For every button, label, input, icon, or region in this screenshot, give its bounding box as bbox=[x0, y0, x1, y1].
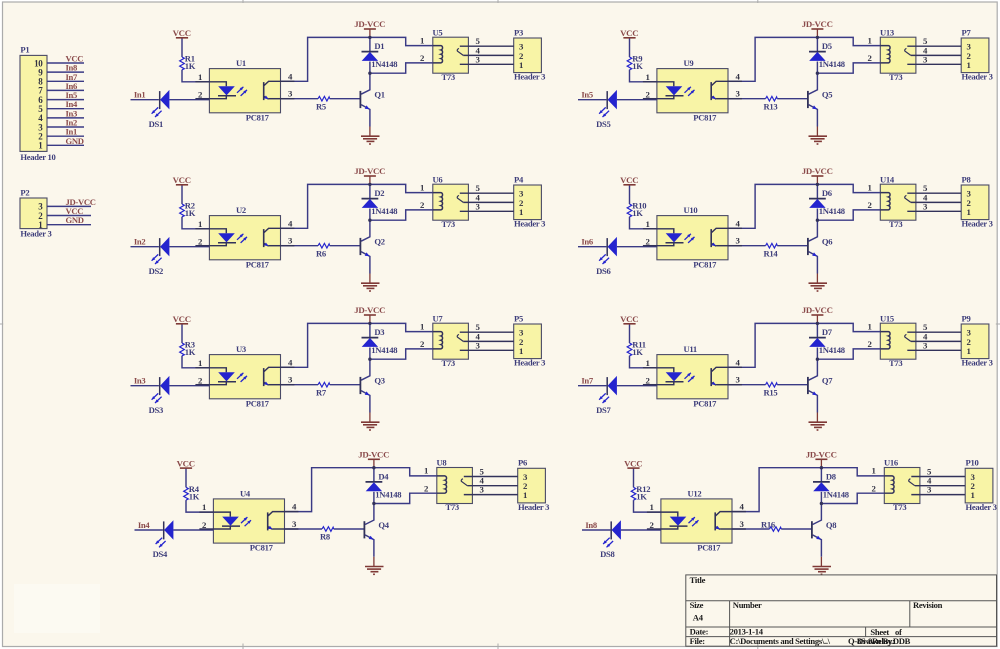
svg-text:R9: R9 bbox=[632, 54, 642, 64]
svg-text:D6: D6 bbox=[822, 188, 833, 198]
svg-text:P7: P7 bbox=[962, 27, 972, 37]
svg-text:Q7: Q7 bbox=[822, 376, 833, 386]
svg-text:U9: U9 bbox=[684, 58, 694, 68]
svg-text:P1: P1 bbox=[20, 45, 29, 55]
svg-text:Q3: Q3 bbox=[374, 376, 384, 386]
svg-text:R8: R8 bbox=[320, 532, 331, 542]
svg-text:In4: In4 bbox=[138, 520, 151, 530]
svg-text:U6: U6 bbox=[433, 174, 444, 184]
svg-text:U2: U2 bbox=[236, 205, 246, 215]
svg-text:GND: GND bbox=[66, 136, 84, 146]
svg-text:Size: Size bbox=[690, 600, 704, 610]
svg-text:P5: P5 bbox=[514, 313, 523, 323]
svg-text:Q1: Q1 bbox=[374, 90, 384, 100]
svg-text:R13: R13 bbox=[764, 101, 778, 111]
svg-text:U7: U7 bbox=[433, 313, 444, 323]
svg-text:Q2: Q2 bbox=[374, 237, 384, 247]
svg-text:P9: P9 bbox=[962, 313, 971, 323]
svg-text:In6: In6 bbox=[581, 237, 594, 247]
svg-text:P2: P2 bbox=[20, 188, 29, 198]
svg-text:In5: In5 bbox=[581, 90, 593, 100]
svg-text:In3: In3 bbox=[134, 376, 146, 386]
svg-text:R1: R1 bbox=[185, 54, 195, 64]
svg-text:R2: R2 bbox=[185, 201, 195, 211]
svg-text:U3: U3 bbox=[236, 344, 246, 354]
svg-text:R10: R10 bbox=[632, 201, 646, 211]
svg-text:P4: P4 bbox=[514, 174, 524, 184]
svg-text:Number: Number bbox=[733, 600, 762, 610]
svg-text:R4: R4 bbox=[189, 484, 200, 494]
svg-text:In2: In2 bbox=[134, 237, 146, 247]
svg-text:Header 3: Header 3 bbox=[20, 229, 51, 239]
svg-text:D2: D2 bbox=[374, 188, 384, 198]
svg-text:DS6: DS6 bbox=[596, 266, 611, 276]
svg-text:In1: In1 bbox=[134, 90, 146, 100]
svg-text:A4: A4 bbox=[693, 613, 704, 623]
svg-text:GND: GND bbox=[66, 215, 84, 225]
svg-text:R15: R15 bbox=[764, 387, 778, 397]
svg-text:U13: U13 bbox=[880, 27, 894, 37]
svg-text:R11: R11 bbox=[632, 340, 645, 350]
svg-text:Q8: Q8 bbox=[826, 520, 837, 530]
svg-text:In7: In7 bbox=[581, 376, 594, 386]
svg-text:U12: U12 bbox=[688, 488, 702, 498]
svg-text:D3: D3 bbox=[374, 327, 384, 337]
svg-text:DS1: DS1 bbox=[149, 119, 163, 129]
svg-text:Q4: Q4 bbox=[378, 520, 389, 530]
svg-text:U4: U4 bbox=[240, 488, 251, 498]
svg-text:Q6: Q6 bbox=[822, 237, 833, 247]
svg-text:File:: File: bbox=[690, 636, 706, 646]
svg-text:U11: U11 bbox=[684, 344, 697, 354]
svg-text:U5: U5 bbox=[433, 27, 443, 37]
svg-text:DS4: DS4 bbox=[153, 549, 168, 559]
svg-text:DS5: DS5 bbox=[596, 119, 610, 129]
svg-text:D5: D5 bbox=[822, 41, 832, 51]
svg-text:R3: R3 bbox=[185, 340, 195, 350]
svg-text:DS2: DS2 bbox=[149, 266, 163, 276]
svg-text:In8: In8 bbox=[585, 520, 598, 530]
svg-text:D7: D7 bbox=[822, 327, 833, 337]
svg-text:Title: Title bbox=[690, 575, 706, 585]
svg-text:DS8: DS8 bbox=[600, 549, 615, 559]
svg-text:Header 10: Header 10 bbox=[20, 152, 55, 162]
svg-text:P3: P3 bbox=[514, 27, 523, 37]
svg-text:DS7: DS7 bbox=[596, 405, 611, 415]
svg-text:Revision: Revision bbox=[913, 600, 943, 610]
svg-text:C:\Documents and Settings\..\: C:\Documents and Settings\..\ bbox=[730, 636, 831, 646]
svg-text:P10: P10 bbox=[966, 458, 979, 468]
svg-text:DS3: DS3 bbox=[149, 405, 163, 415]
svg-text:U1: U1 bbox=[236, 58, 246, 68]
svg-text:D1: D1 bbox=[374, 41, 384, 51]
svg-text:Q5: Q5 bbox=[822, 90, 832, 100]
svg-text:D4: D4 bbox=[378, 471, 389, 481]
svg-text:P8: P8 bbox=[962, 174, 972, 184]
svg-text:Drawn By:: Drawn By: bbox=[857, 636, 895, 646]
svg-text:U15: U15 bbox=[880, 313, 894, 323]
svg-text:R7: R7 bbox=[316, 387, 327, 397]
svg-text:U16: U16 bbox=[884, 458, 899, 468]
svg-text:U10: U10 bbox=[684, 205, 698, 215]
svg-text:R14: R14 bbox=[764, 248, 779, 258]
svg-text:P6: P6 bbox=[518, 458, 528, 468]
svg-text:R6: R6 bbox=[316, 248, 327, 258]
svg-text:U14: U14 bbox=[880, 174, 895, 184]
svg-text:R16: R16 bbox=[761, 520, 776, 530]
svg-text:R12: R12 bbox=[636, 484, 650, 494]
svg-text:R5: R5 bbox=[316, 101, 326, 111]
svg-text:D8: D8 bbox=[826, 471, 837, 481]
svg-text:U8: U8 bbox=[437, 458, 448, 468]
